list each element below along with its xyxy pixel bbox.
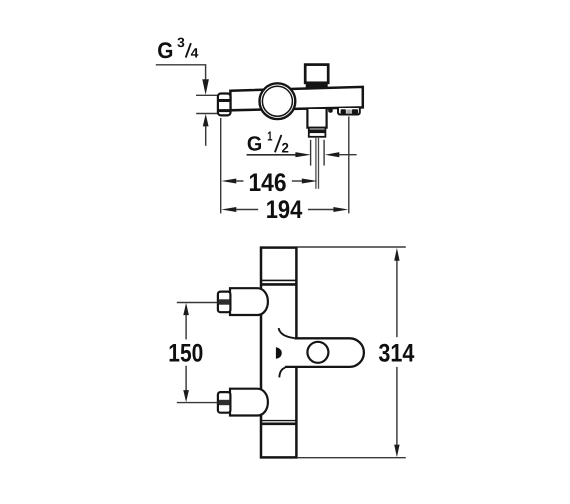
lever base fillet top <box>279 328 294 338</box>
label G 1/2 <box>247 129 289 156</box>
nut facet line upper <box>218 99 230 102</box>
lower inlet union body with flare <box>230 389 268 416</box>
arrowhead up to nut bottom <box>203 114 209 127</box>
tub spout outlet under body right <box>338 108 360 115</box>
aerator dark block right <box>352 109 358 113</box>
extension line nut bottom <box>196 113 217 115</box>
dimension 314 <box>297 247 415 458</box>
top cap double line thin <box>261 279 296 281</box>
svg-text:150: 150 <box>168 339 203 367</box>
label G 3/4 <box>157 35 199 63</box>
dimension 194 <box>221 196 348 224</box>
shower hose line right <box>318 137 320 189</box>
svg-text:1: 1 <box>267 129 272 144</box>
lever white fill <box>290 338 364 367</box>
shower outlet under body <box>307 109 326 128</box>
small stub right of shower outlet <box>328 108 333 113</box>
aerator dark block left <box>341 109 346 113</box>
extension line right (from tub outlet) <box>348 116 350 213</box>
dimension 150 <box>168 303 217 403</box>
svg-text:G: G <box>157 38 173 63</box>
lower nut facet band <box>219 400 230 405</box>
top cap double line thick <box>261 283 296 286</box>
svg-text:194: 194 <box>266 196 303 224</box>
thermostat handle circle inner <box>262 86 292 116</box>
hose nut dark band <box>309 129 325 133</box>
svg-text:3: 3 <box>177 35 185 50</box>
upper inlet union body with flare <box>230 288 268 315</box>
lever outline <box>285 338 364 367</box>
arrowhead down to nut top <box>202 79 209 95</box>
lever base fillet bottom <box>279 368 285 378</box>
G1/2 extension line left <box>310 140 312 166</box>
G1/2 dimension underline and tail <box>247 154 296 156</box>
G1/2 arrowhead right-pointing <box>295 152 311 157</box>
svg-text:146: 146 <box>249 169 287 197</box>
lever knob circle <box>307 342 328 363</box>
aerator middle gray <box>346 110 351 114</box>
nut facet line lower <box>218 109 230 112</box>
arrow shaft below <box>205 126 207 146</box>
dark crescent marker <box>276 347 282 359</box>
G1/2 extension line right <box>323 140 325 166</box>
extension line nut top <box>196 94 218 96</box>
G1/2 arrowhead left-pointing <box>325 152 339 157</box>
leader line G3/4 <box>156 65 206 80</box>
dimension 146 <box>221 169 317 197</box>
shower hose line left <box>315 137 317 189</box>
bottom cap double line thin <box>261 420 296 422</box>
svg-text:314: 314 <box>378 339 415 367</box>
knob collar <box>306 83 328 88</box>
svg-text:4: 4 <box>191 46 199 61</box>
column body <box>261 248 296 458</box>
svg-text:2: 2 <box>282 140 290 155</box>
svg-text:G: G <box>247 133 262 156</box>
bottom cap double line thick <box>261 422 296 425</box>
G1/2 right tail <box>339 154 357 156</box>
union hex nut left <box>218 94 231 116</box>
upper inlet hex nut <box>218 292 231 313</box>
hose nut <box>309 128 326 137</box>
body (horizontal cylinder) <box>230 87 362 110</box>
extension line left (from nut) <box>220 118 222 213</box>
lower inlet hex nut <box>218 392 231 413</box>
thermostat handle circle outer <box>260 83 296 119</box>
upper nut facet band <box>219 299 230 304</box>
diverter knob square on body top <box>305 65 328 83</box>
